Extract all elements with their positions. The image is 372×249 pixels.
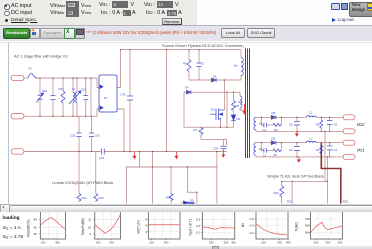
aux winding Na (240, 96, 242, 108)
Log-out (332, 18, 336, 22)
Vin input box (66, 1, 79, 17)
chart 4 Np(T) of T1 (189, 212, 237, 245)
wire cap X branch (52, 78, 54, 96)
svg-text:C3: C3 (334, 148, 338, 152)
Band B toolbar row (0, 25, 372, 42)
resistor R32 (280, 186, 284, 197)
wire flyback top rail (121, 49, 242, 51)
svg-text:T1: T1 (241, 45, 245, 49)
svg-text:C16: C16 (42, 89, 48, 93)
Recalculate button (3, 28, 30, 39)
svg-text:R23: R23 (99, 196, 105, 200)
svg-text:200: 200 (314, 241, 319, 245)
resistor R2 (273, 149, 281, 152)
mosfet M1 (215, 109, 217, 121)
wire vertical cap24 down (223, 139, 225, 145)
wire C7 branch (198, 50, 200, 63)
capacitor C4 (263, 123, 265, 127)
wire after D9 (277, 142, 307, 144)
svg-text:200: 200 (261, 241, 266, 245)
screen icon (75, 28, 86, 39)
wire ACL to fuse (24, 77, 28, 79)
wire source row (184, 126, 234, 128)
terminal ACN (11, 114, 24, 119)
capacitor C2 (294, 146, 300, 148)
ground primary A (132, 152, 136, 160)
Topologies button (40, 28, 65, 39)
loading text block (3, 215, 24, 240)
ground sec2 (297, 157, 301, 163)
radio DC input (4, 11, 9, 16)
resistor R10 (169, 194, 173, 201)
svg-text:Io1 = 1 A: Io1 = 1 A (3, 225, 22, 231)
svg-text:Do: Do (241, 223, 245, 227)
Remove button (162, 18, 182, 26)
wire fb mid vertical (291, 181, 293, 203)
wire vo1 return rail (256, 156, 343, 157)
left panel border (8, 43, 10, 204)
home icon (30, 28, 41, 39)
panel hairline (0, 41, 372, 43)
wire pwm mid vertical (152, 152, 154, 204)
wire secondary rail vo2 (256, 116, 270, 118)
wire R3 branch (320, 143, 322, 146)
wire long vcc vertical (165, 50, 167, 152)
svg-text:R21: R21 (82, 196, 88, 200)
wire R23 drop (95, 152, 97, 194)
wire C2 branch (296, 143, 298, 147)
svg-text:9: 9 (90, 232, 92, 236)
svg-text:R6: R6 (183, 62, 187, 66)
svg-text:R7: R7 (194, 128, 198, 132)
resistor R21 (77, 194, 81, 202)
terminal Vo1- (343, 154, 355, 159)
wire R8 top (233, 92, 235, 100)
red status text (86, 30, 216, 35)
svg-text:Vo2: Vo2 (357, 122, 365, 127)
wire R6 branch (188, 50, 190, 60)
svg-text:C5: C5 (289, 123, 293, 127)
wire primary bottom (240, 50, 242, 58)
svg-text:R10: R10 (166, 196, 172, 200)
inductor L1 (306, 116, 316, 118)
svg-text:loading: loading (3, 215, 20, 221)
capacitor C7 (197, 62, 202, 64)
svg-text:11: 11 (88, 218, 91, 222)
svg-text:R3: R3 (316, 148, 320, 152)
capacitor C23 (100, 149, 102, 155)
svg-text:D4: D4 (185, 86, 189, 90)
fuse F1 (28, 74, 37, 78)
wire fb R32 bottom (281, 197, 283, 204)
capacitor C3 (327, 145, 332, 147)
transformer core (246, 49, 250, 159)
svg-text:Total Eff (%): Total Eff (%) (27, 219, 31, 237)
wire drain vertical (223, 80, 225, 110)
svg-text:C32: C32 (70, 134, 76, 138)
wire fb sense vo2 (324, 131, 326, 181)
blue components (28, 49, 332, 205)
capacitor C1 (263, 148, 265, 152)
wire bridge minus down (117, 109, 124, 152)
wire D5 feed (186, 167, 188, 192)
svg-text:R5: R5 (316, 123, 320, 127)
wire C6 branch (329, 117, 331, 120)
svg-text:C4: C4 (263, 128, 267, 132)
capacitor C18 (83, 95, 88, 97)
svg-text:Ns: Ns (259, 122, 263, 126)
terminal Vo2- (343, 129, 355, 134)
wire snubber2 (261, 143, 264, 151)
svg-text:100: 100 (41, 241, 46, 245)
svg-text:L3: L3 (72, 87, 76, 91)
wire bulk cap branch (129, 50, 131, 96)
wire varistor branch (39, 78, 41, 95)
svg-text:82: 82 (34, 225, 38, 229)
resistor R5 (320, 120, 323, 128)
chart 6 fs(Hz) (295, 212, 343, 245)
svg-text:300: 300 (55, 241, 60, 245)
svg-text:D5: D5 (190, 199, 194, 203)
wire D1 to drain node (219, 79, 242, 81)
wire after D8 (277, 116, 307, 118)
wire aux top (239, 92, 241, 96)
top-right icons (331, 3, 340, 10)
diode D8 (271, 115, 276, 119)
excel icon (64, 28, 75, 39)
resistor R23 (94, 194, 98, 202)
svg-text:4: 4 (145, 230, 147, 234)
chart 5 Do (241, 212, 291, 245)
terminal Vo1+ (343, 140, 355, 145)
wire fb right vertical (326, 157, 328, 204)
bridge D7 (99, 75, 117, 112)
capacitor C5 (294, 120, 300, 122)
thick blue wire near D5 (188, 202, 195, 204)
wire clamp rail (189, 79, 211, 81)
wire pwm vertical b (196, 192, 198, 203)
wire vertical right pwm (216, 152, 218, 204)
svg-text:R31: R31 (287, 200, 293, 204)
svg-text:Io2 = 3.75: Io2 = 3.75 (3, 234, 24, 240)
svg-text:400: 400 (231, 241, 236, 245)
svg-text:D7: D7 (104, 96, 108, 100)
resistor R8 (232, 101, 236, 111)
svg-text:300: 300 (164, 241, 169, 245)
resistor R34 (61, 91, 65, 103)
wire R8 to D6 (233, 111, 235, 115)
svg-text:R2: R2 (274, 153, 278, 157)
wire D5 anode stub (181, 202, 184, 204)
wire earth rail left (24, 151, 101, 153)
svg-text:M1: M1 (211, 108, 215, 112)
wire after L1 (316, 116, 343, 118)
svg-text:R32: R32 (274, 191, 280, 195)
svg-text:10: 10 (88, 225, 92, 229)
svg-text:84: 84 (34, 218, 38, 222)
primary winding Np (241, 58, 243, 76)
wire top rail AC (37, 77, 97, 79)
svg-text:Simple TL431 dual O/P feedback: Simple TL431 dual O/P feedback (267, 173, 324, 178)
wire jog into bridge ac1 (97, 78, 99, 88)
svg-text:Ns: Ns (259, 147, 263, 151)
svg-text:C2: C2 (289, 148, 293, 152)
Circuit area (0, 41, 372, 204)
charts area (0, 212, 372, 249)
svg-text:200: 200 (209, 241, 214, 245)
terminal earth (11, 149, 24, 154)
wire source of M1 (220, 121, 222, 127)
output labels (357, 122, 365, 153)
svg-text:C7: C7 (201, 62, 205, 66)
Vin labels (50, 3, 65, 9)
svg-text:I-mode ICE5QSAG QR PWM Block: I-mode ICE5QSAG QR PWM Block (52, 180, 113, 185)
svg-text:0.3: 0.3 (196, 218, 201, 222)
svg-text:AC 1 stage filter with bridge: AC 1 stage filter with bridge V3 (14, 54, 67, 59)
svg-text:C1: C1 (263, 154, 267, 158)
svg-text:fs(Hz): fs(Hz) (295, 222, 299, 231)
svg-text:D9: D9 (272, 136, 276, 140)
Look All button (221, 28, 245, 38)
svg-text:R8: R8 (236, 104, 240, 108)
svg-text:300: 300 (224, 241, 229, 245)
diode D4 (187, 90, 191, 94)
SVG Circuit button (247, 28, 275, 38)
svg-text:6: 6 (145, 218, 147, 222)
svg-text:Source Driven Flyback RCD AC/D: Source Driven Flyback RCD AC/DC Converte… (162, 43, 242, 48)
svg-text:Total Pd(W): Total Pd(W) (81, 218, 85, 235)
svg-text:Na: Na (238, 100, 242, 104)
wire fb rail (282, 180, 328, 182)
ground primary B (174, 152, 178, 160)
ground C24 (221, 151, 225, 158)
svg-text:D1: D1 (213, 75, 217, 79)
svg-text:Np: Np (234, 64, 238, 68)
diode D1 (212, 78, 217, 82)
wire Ycap C32 (78, 116, 80, 133)
wire fb R32 top (281, 181, 283, 186)
svg-text:C24: C24 (213, 147, 219, 151)
secondary winding Ns1 (254, 143, 256, 156)
diode D6 (231, 115, 235, 120)
wire R21 drop (78, 152, 80, 194)
ground arrows (red) (132, 104, 300, 163)
svg-text:300: 300 (277, 241, 282, 245)
wire C3 branch (329, 143, 331, 146)
svg-text:0.4: 0.4 (250, 223, 255, 227)
svg-text:L1: L1 (310, 111, 314, 115)
diode D9 (271, 141, 276, 145)
svg-text:80: 80 (34, 232, 38, 236)
ground sec1 (295, 131, 299, 136)
wire R7 top (200, 126, 202, 128)
Detail Spec link (5, 19, 8, 22)
svg-text:5: 5 (145, 223, 147, 227)
svg-text:D8: D8 (272, 111, 276, 115)
chart 3 Vd(T) (V) (137, 212, 181, 245)
horizontal scrollbar (0, 204, 372, 213)
svg-text:100: 100 (96, 241, 101, 245)
wire earth rail right (105, 151, 227, 153)
Vo2 / Io2 (144, 2, 156, 8)
svg-text:C18: C18 (81, 88, 87, 92)
resistor R6 (187, 60, 191, 72)
svg-text:R4: R4 (274, 128, 278, 132)
inductor L2 (306, 141, 316, 143)
svg-text:C6: C6 (334, 123, 338, 127)
capacitor C24 (221, 145, 227, 147)
resistor R4 (273, 123, 281, 126)
svg-text:C23: C23 (99, 156, 105, 160)
svg-text:R34: R34 (59, 87, 65, 91)
wire R5 branch (320, 117, 322, 120)
svg-text:300: 300 (326, 241, 331, 245)
wire after L2 (316, 142, 343, 144)
wire jog into bridge ac2 (97, 109, 99, 116)
svg-text:F1: F1 (29, 67, 33, 71)
capacitor C32 (77, 132, 82, 134)
secondary winding Ns2 (254, 117, 256, 130)
svg-text:Vo1: Vo1 (357, 148, 365, 153)
wire snubber1 (261, 117, 264, 125)
wire C5 branch (296, 117, 298, 121)
Vo1 / Io1 (99, 2, 111, 8)
bottom strip (0, 246, 372, 249)
radio AC input (4, 4, 9, 9)
wire R34 branch (62, 78, 64, 91)
wire pwm vertical a (139, 152, 141, 168)
resistor R3 (320, 145, 323, 153)
resistor R7 (199, 128, 203, 135)
ground aux (242, 104, 246, 115)
svg-text:0.2: 0.2 (250, 231, 255, 235)
wire gate rail (184, 91, 186, 93)
terminal Vo2+ (343, 115, 355, 120)
wire bottom rail AC (24, 115, 97, 117)
capacitor C31 (89, 132, 94, 134)
svg-text:300: 300 (109, 241, 114, 245)
wire D6 bottom (233, 121, 235, 127)
wire C18 branch (85, 78, 87, 96)
chart 1 Total Eff (%) (27, 212, 66, 245)
diode D5 (184, 201, 188, 205)
thick sense wire (321, 143, 341, 204)
svg-text:R33: R33 (343, 200, 349, 204)
wire Ycap C31 (91, 116, 93, 133)
wire R10 branch (170, 167, 172, 194)
capacitor C6 (327, 120, 332, 122)
wire gate vertical left (183, 92, 185, 127)
svg-text:400: 400 (338, 241, 343, 245)
choke L3 (73, 93, 75, 103)
svg-text:Np(T) of T1: Np(T) of T1 (189, 219, 193, 236)
wire gate line vertical (226, 92, 228, 127)
varistor C16 (38, 94, 43, 96)
svg-text:Vd(T) (V): Vd(T) (V) (137, 220, 141, 234)
wire bridge plus up (117, 50, 121, 88)
svg-text:400: 400 (286, 241, 291, 245)
wire choke branches (72, 78, 74, 93)
chart 2 Total Pd(W) (81, 212, 121, 245)
wire secondary rail vo1 (256, 142, 270, 144)
capacitor CX (51, 95, 56, 97)
Band A: top input bar (0, 0, 197, 25)
svg-text:L2: L2 (310, 136, 314, 140)
svg-text:C30: C30 (121, 93, 127, 97)
svg-text:0.6: 0.6 (250, 217, 255, 221)
wire aux bottom to ground (240, 108, 245, 110)
svg-text:100: 100 (149, 241, 154, 245)
svg-text:0.1: 0.1 (196, 231, 201, 235)
capacitor C19 bulk (127, 95, 133, 97)
svg-text:0.2: 0.2 (196, 224, 201, 228)
New Design button (349, 2, 372, 17)
wire R7 bottom loop (201, 135, 227, 146)
svg-text:D6: D6 (237, 117, 241, 121)
wire pwm top boundary (126, 167, 217, 204)
terminal ACL (11, 75, 24, 80)
svg-text:C31: C31 (95, 134, 101, 138)
wire vo2 return rail (256, 130, 343, 131)
wire plain branch (90, 78, 92, 116)
